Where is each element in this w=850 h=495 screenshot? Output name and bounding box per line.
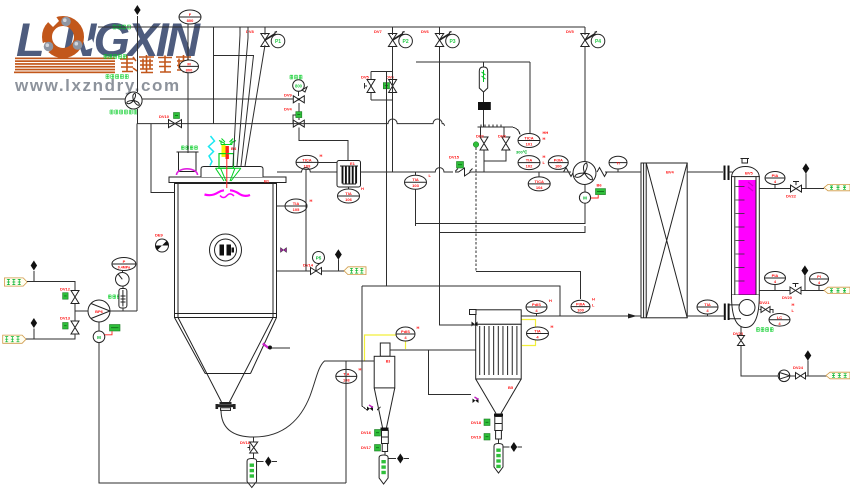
svg-text:TIA: TIA bbox=[534, 329, 541, 334]
wire exchanger to column bbox=[687, 171, 723, 173]
motor M bbox=[93, 331, 105, 343]
svg-text:PIA: PIA bbox=[772, 273, 779, 278]
svg-text:P2: P2 bbox=[403, 39, 409, 45]
svg-text:DV24: DV24 bbox=[793, 365, 804, 370]
wire feed inlet 1 bbox=[27, 282, 75, 290]
arrow filter prod arrow bbox=[511, 442, 517, 452]
bag filter B5 bbox=[476, 310, 522, 414]
svg-text:TICA: TICA bbox=[535, 179, 544, 184]
feed cylinder bbox=[177, 152, 199, 172]
svg-text:TIA: TIA bbox=[526, 158, 533, 163]
solenoid DV10 solenoid bbox=[174, 113, 180, 119]
wire M meter down to feed cylinder on lid bbox=[187, 73, 189, 153]
solenoid DV2 pilot bbox=[473, 142, 479, 148]
wire blower to junction bbox=[137, 109, 139, 124]
wire feed drop into tower bbox=[151, 124, 175, 193]
valve DV4 bbox=[284, 107, 304, 128]
valve DV5 bypass bbox=[361, 75, 375, 93]
solenoid DV4 solenoid bbox=[296, 112, 302, 118]
svg-text:DV5: DV5 bbox=[361, 75, 370, 80]
svg-text:106: 106 bbox=[345, 197, 352, 202]
tower lid step bbox=[201, 167, 263, 178]
wire main hot air line bbox=[277, 168, 571, 172]
svg-text:TI: TI bbox=[616, 160, 620, 165]
cylinder base magenta bbox=[177, 169, 198, 175]
svg-text:BP6: BP6 bbox=[95, 309, 104, 314]
solenoid DV13 solenoid bbox=[63, 323, 69, 330]
damper bbox=[478, 102, 491, 110]
svg-text:www.lxzndry.com: www.lxzndry.com bbox=[14, 76, 181, 95]
atomizer B4 bbox=[216, 139, 241, 189]
instrument F meter bbox=[179, 10, 201, 24]
svg-text:DV12: DV12 bbox=[60, 287, 71, 292]
arrow air intake bbox=[134, 5, 140, 15]
wire routing drop A bbox=[386, 72, 388, 286]
label feed inlet 1 bbox=[4, 278, 27, 286]
wire DV6 drop bbox=[440, 27, 476, 325]
svg-text:TICA: TICA bbox=[524, 136, 533, 141]
wire stub behind url bbox=[100, 98, 125, 100]
svg-text:TICA: TICA bbox=[302, 157, 311, 162]
solenoid DV18 solenoid bbox=[484, 419, 490, 426]
svg-text:DV14: DV14 bbox=[303, 263, 314, 268]
svg-text:PdIS: PdIS bbox=[401, 329, 410, 334]
svg-text:DV10: DV10 bbox=[159, 114, 170, 119]
svg-text:B5: B5 bbox=[508, 385, 514, 390]
svg-text:H: H bbox=[792, 302, 795, 307]
svg-text:M: M bbox=[97, 335, 101, 340]
gauge dial bbox=[116, 273, 130, 287]
rotameter bbox=[119, 289, 127, 309]
svg-text:DV16: DV16 bbox=[361, 430, 372, 435]
fan motor M bbox=[579, 192, 590, 203]
svg-text:DE9: DE9 bbox=[155, 233, 164, 238]
svg-text:DV4: DV4 bbox=[284, 107, 293, 112]
arrow vent arrow bbox=[803, 164, 810, 174]
svg-text:H: H bbox=[543, 154, 546, 159]
svg-text:0.4MPa: 0.4MPa bbox=[118, 266, 131, 270]
spray plume bbox=[205, 190, 251, 197]
wire DV7 drop bbox=[392, 27, 394, 172]
fan main fan B6 bbox=[573, 162, 596, 185]
wire atomizer air header bbox=[138, 119, 445, 126]
wire probe to damper bbox=[483, 92, 485, 102]
valve DV3 bbox=[498, 134, 510, 151]
valve DV2 bbox=[476, 134, 488, 151]
valve DV21 bbox=[761, 307, 770, 313]
logo LONGXIN bbox=[14, 13, 201, 95]
wire routing header y62 bbox=[416, 61, 530, 63]
instrument LI col bbox=[769, 314, 790, 327]
solenoid DV16 solenoid bbox=[375, 430, 381, 437]
valve DV14 bbox=[311, 268, 322, 275]
valve DV10 bbox=[159, 114, 182, 128]
svg-text:TIA: TIA bbox=[293, 201, 300, 206]
heat exchanger BV4 bbox=[641, 163, 687, 318]
svg-text:PdIS: PdIS bbox=[532, 302, 541, 307]
svg-text:M: M bbox=[583, 196, 587, 201]
svg-text:TIA: TIA bbox=[345, 191, 352, 196]
wire exhaust run filter to exchanger bbox=[521, 315, 641, 317]
svg-text:DV9: DV9 bbox=[284, 93, 293, 98]
svg-text:DV17: DV17 bbox=[361, 445, 372, 450]
wire filter blowback bbox=[429, 350, 472, 395]
valve DV6 with positioner P3 bbox=[421, 29, 459, 48]
instrument TIA 108 bbox=[336, 369, 357, 383]
svg-text:BV5: BV5 bbox=[745, 171, 754, 176]
svg-text:PI: PI bbox=[817, 274, 821, 279]
cyclone B3 bbox=[374, 343, 395, 428]
discharge flange bbox=[216, 402, 236, 410]
wire motor control run bbox=[416, 204, 585, 224]
label clean water bbox=[826, 372, 850, 379]
instrument TIA 106 bbox=[338, 189, 360, 203]
wire blower to DV9 regulator bbox=[142, 98, 293, 100]
svg-text:DV22: DV22 bbox=[786, 194, 797, 199]
svg-text:TIA: TIA bbox=[704, 302, 711, 307]
svg-text:DV5: DV5 bbox=[566, 29, 575, 34]
svg-text:DV15: DV15 bbox=[449, 155, 460, 160]
wire feed inlet 2 valve to junction bbox=[74, 311, 76, 321]
manifold header bbox=[478, 127, 521, 137]
wire riser to product pipe bbox=[345, 361, 347, 483]
svg-text:DV3: DV3 bbox=[498, 134, 507, 139]
filter rotary airlock bbox=[494, 414, 503, 440]
vessel cyclone product bbox=[379, 455, 388, 484]
svg-text:H: H bbox=[361, 186, 364, 191]
logo chinese 龙鑫干燥 blobs bbox=[120, 55, 191, 73]
solenoid DV19 solenoid bbox=[484, 434, 490, 441]
logo stripes bbox=[14, 58, 115, 74]
valve DV24 bbox=[793, 365, 806, 379]
wire probe drop bbox=[483, 62, 485, 67]
wire bypass loop bbox=[365, 72, 393, 101]
svg-text:BV4: BV4 bbox=[666, 170, 675, 175]
cyclone rotary airlock bbox=[381, 428, 389, 452]
wire exhaust arrowhead bbox=[628, 314, 637, 319]
instrument PIA 4b bbox=[810, 273, 829, 286]
instrument M meter bbox=[180, 60, 199, 73]
svg-text:P1: P1 bbox=[275, 39, 281, 45]
svg-text:H: H bbox=[320, 153, 323, 158]
svg-text:H: H bbox=[549, 298, 552, 303]
label feed inlet 2 bbox=[3, 335, 26, 343]
instrument PIS cyclone bbox=[396, 327, 415, 341]
instrument TICA 104 bbox=[528, 177, 550, 191]
wire compressed air inlet bbox=[277, 270, 344, 272]
svg-text:DV20: DV20 bbox=[782, 295, 793, 300]
valve DV23 bbox=[738, 336, 745, 346]
wire bundle stub 3 bbox=[214, 56, 254, 167]
heater E1 bbox=[337, 161, 361, 188]
pump P7 bbox=[778, 370, 790, 382]
svg-text:B1: B1 bbox=[264, 179, 270, 184]
pump BP6 bbox=[88, 300, 110, 322]
instrument TICA 101 bbox=[518, 134, 540, 148]
tower B1 body bbox=[175, 184, 277, 318]
svg-text:DV19: DV19 bbox=[471, 435, 482, 440]
svg-text:104: 104 bbox=[536, 185, 543, 190]
wire feed inlet 1 to pump bbox=[75, 304, 88, 311]
instrument PIA mid bbox=[765, 272, 786, 285]
valve DV22 bbox=[786, 185, 802, 198]
instrument TIA 102 bbox=[518, 156, 540, 170]
instrument PdIA f2 bbox=[571, 300, 590, 313]
solenoid bypass solenoid bbox=[383, 83, 389, 89]
svg-text:PdIA: PdIA bbox=[554, 158, 563, 163]
solenoid DV12 solenoid bbox=[63, 293, 69, 300]
svg-text:P5: P5 bbox=[316, 256, 322, 261]
wire routing run C bbox=[440, 226, 586, 233]
sensor DE9 bbox=[155, 233, 169, 253]
wire damper to valve manifold bbox=[483, 110, 485, 127]
wire fan to exchanger bbox=[605, 171, 641, 173]
wire bundle stub 2 bbox=[237, 27, 248, 166]
svg-text:H: H bbox=[417, 325, 420, 330]
wire feed inlet 2 bbox=[26, 334, 75, 339]
valve DV6 bypass bbox=[386, 75, 397, 93]
tower lid bbox=[169, 177, 286, 183]
instrument TIA 105 bbox=[285, 199, 307, 213]
solenoid DV17 solenoid bbox=[375, 445, 381, 452]
arrow tower prod arrow bbox=[265, 457, 271, 467]
filter cone valve bbox=[473, 397, 479, 403]
instrument TIA f3 bbox=[527, 327, 549, 340]
svg-text:DV21: DV21 bbox=[760, 300, 771, 305]
svg-text:HH: HH bbox=[543, 130, 549, 135]
svg-text:H: H bbox=[592, 297, 595, 302]
arrow flush arrow bbox=[805, 351, 812, 361]
svg-text:DV8: DV8 bbox=[246, 29, 255, 34]
logo O swirl bbox=[47, 21, 79, 53]
wire pump to M motor bbox=[98, 322, 100, 331]
wire valve loop bottom bbox=[484, 150, 506, 161]
wire bundle from valve DV8 bbox=[245, 27, 265, 166]
regulator P5 bbox=[313, 252, 325, 272]
arrow air arrow bbox=[335, 250, 342, 260]
signal wire yellow cyclone bbox=[365, 335, 406, 361]
svg-text:100: 100 bbox=[577, 308, 584, 313]
valve DV9 bbox=[284, 93, 304, 103]
wire pump outlet bbox=[110, 310, 137, 312]
svg-text:H: H bbox=[543, 136, 546, 141]
label compressed air bbox=[344, 267, 366, 275]
instrument PI top bbox=[765, 172, 785, 185]
line break symbol bbox=[455, 168, 474, 176]
instrument PIA f1 bbox=[526, 301, 547, 314]
valve DV5 with positioner P4 bbox=[566, 29, 605, 48]
svg-text:DV6: DV6 bbox=[421, 29, 430, 34]
svg-text:103: 103 bbox=[412, 183, 419, 188]
wire VFD signal bbox=[591, 195, 598, 198]
wire routing run A bbox=[362, 286, 560, 316]
valve DV12 bbox=[60, 287, 79, 304]
svg-text:E1: E1 bbox=[350, 161, 356, 166]
tower cone bbox=[175, 314, 277, 403]
wire feed meter line F to M bbox=[187, 24, 189, 61]
svg-text:108: 108 bbox=[343, 377, 350, 382]
svg-text:DV6: DV6 bbox=[386, 75, 395, 80]
svg-text:TIA: TIA bbox=[412, 177, 419, 182]
purge valve bbox=[367, 405, 373, 411]
wire M motor drain loop down bbox=[99, 343, 346, 484]
solenoid DV15 solenoid bbox=[457, 162, 464, 169]
fan blower B2 bbox=[125, 92, 142, 109]
arrow cyclone prod arrow bbox=[397, 454, 403, 464]
svg-text:102: 102 bbox=[526, 164, 533, 169]
instrument TI bbox=[609, 156, 627, 169]
sight glass bbox=[210, 234, 242, 266]
svg-text:LC: LC bbox=[777, 315, 782, 320]
valve DV8 with positioner P1 bbox=[246, 29, 285, 48]
wire cyclone purge drop bbox=[362, 286, 367, 410]
instrument PdIA bbox=[548, 156, 568, 170]
svg-text:H: H bbox=[551, 324, 554, 329]
svg-text:DV13: DV13 bbox=[60, 316, 71, 321]
wire routing drop D bbox=[475, 148, 477, 272]
solenoid VFD box bbox=[110, 325, 121, 332]
label condensate out top bbox=[824, 184, 850, 190]
wire pump VFD signal bbox=[105, 331, 113, 335]
wire air intake drop through logo to blower bbox=[137, 16, 139, 92]
instrument TICA 109 bbox=[296, 155, 318, 169]
column inlet flange bbox=[725, 166, 733, 181]
solenoid fan VFD bbox=[596, 189, 606, 195]
arrow feed arrow 2 bbox=[31, 318, 37, 328]
wire DV5 drop to fan bbox=[584, 27, 586, 161]
svg-text:B3: B3 bbox=[386, 360, 391, 364]
svg-text:800: 800 bbox=[186, 67, 193, 72]
svg-text:P3: P3 bbox=[449, 39, 455, 45]
svg-text:DV18: DV18 bbox=[240, 440, 251, 445]
wall nozzle valve bbox=[281, 248, 287, 253]
vessel tower product bbox=[247, 459, 256, 488]
temp probe bbox=[479, 67, 487, 92]
svg-text:DV18: DV18 bbox=[471, 420, 482, 425]
label cooling water in bbox=[824, 287, 850, 293]
svg-text:300℃: 300℃ bbox=[516, 150, 528, 155]
wire manifold drop to main bbox=[483, 161, 485, 172]
svg-text:P4: P4 bbox=[595, 39, 601, 45]
arrow feed arrow 1 bbox=[31, 261, 37, 271]
arrow water arrow bbox=[802, 266, 809, 276]
svg-text:800: 800 bbox=[295, 84, 303, 89]
svg-text:H: H bbox=[359, 367, 362, 372]
valve tower discharge DV18 bbox=[250, 442, 258, 453]
cone sensor valve bbox=[263, 343, 291, 350]
wire drop to atomizer header bbox=[213, 27, 215, 124]
condenser column BV5 bbox=[725, 159, 760, 328]
wire top header line bbox=[98, 26, 585, 28]
wire exchanger to column elbow bbox=[687, 315, 724, 317]
svg-text:DV2: DV2 bbox=[476, 134, 485, 139]
svg-text:P: P bbox=[123, 259, 126, 264]
wire routing run D bbox=[476, 271, 581, 299]
vessel filter product bbox=[494, 444, 503, 474]
svg-text:101: 101 bbox=[526, 142, 533, 147]
pipe flex joint bbox=[597, 168, 607, 177]
svg-text:PIA: PIA bbox=[772, 173, 779, 178]
svg-text:100: 100 bbox=[555, 164, 562, 169]
svg-text:800: 800 bbox=[187, 18, 194, 23]
svg-text:PdIA: PdIA bbox=[576, 302, 585, 307]
instrument TI col bbox=[697, 300, 718, 314]
cyan hose bbox=[209, 136, 215, 166]
wire purge valve to cone bbox=[377, 407, 381, 410]
valve DV20 bbox=[782, 287, 801, 300]
regulator DV9 gauge bbox=[293, 80, 307, 92]
wire routing drop to TICA bbox=[529, 62, 531, 133]
svg-text:B6: B6 bbox=[597, 183, 603, 188]
wire routing drop B bbox=[415, 189, 417, 226]
svg-text:H: H bbox=[310, 198, 313, 203]
valve DV13 bbox=[60, 316, 79, 335]
pipe flex joint bbox=[564, 168, 574, 177]
instrument TIA 103 bbox=[405, 175, 427, 189]
wire feed riser from pump to atomizer header bbox=[136, 124, 138, 311]
wire cyclone outlet bbox=[390, 349, 476, 351]
filter inlet nozzle bbox=[470, 310, 478, 327]
gauge P 0.4MPa bbox=[112, 258, 136, 271]
signal wire yellow filter bbox=[522, 320, 536, 346]
valve DV7 with positioner P2 bbox=[374, 29, 412, 48]
svg-text:DV7: DV7 bbox=[374, 29, 383, 34]
wire product discharge curve bbox=[221, 361, 374, 437]
wire bundle stub 1 bbox=[233, 27, 240, 166]
svg-text:105: 105 bbox=[293, 207, 300, 212]
